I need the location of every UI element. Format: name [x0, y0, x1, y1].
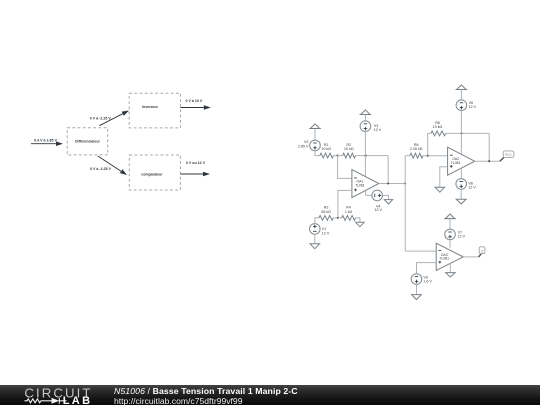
node flag PLC — [503, 151, 514, 158]
wire R1 to node — [333, 155, 337, 157]
voltage source V8 12V — [456, 179, 476, 190]
junction output/feedback — [387, 182, 389, 184]
arrow comparateur output 0V-12V — [180, 161, 210, 176]
ground at V8 — [456, 199, 466, 204]
svg-text:10 kΩ: 10 kΩ — [433, 125, 443, 129]
junction R8 feedback tap — [427, 155, 429, 157]
voltage source V6 12V — [456, 90, 477, 111]
wire feedback down to output — [387, 156, 389, 184]
arrow Differenciateur to comparateur — [90, 156, 127, 175]
junction feedback/output — [488, 160, 490, 162]
wire R6 to OA2 inverting input — [423, 155, 448, 157]
svg-text:Inverseur: Inverseur — [142, 105, 158, 109]
wire V4 to ground — [383, 195, 389, 199]
svg-text:12 V: 12 V — [468, 185, 476, 189]
wire OA1 output — [379, 183, 405, 185]
wire V1 to R3 — [315, 218, 319, 224]
arrow Inverseur output 0V-10V — [181, 99, 211, 110]
power flag above V2 — [309, 124, 321, 129]
wire R8 left leg — [428, 133, 431, 155]
voltage source V2 2.85V — [298, 129, 320, 151]
wire OA3 negative supply to ground — [449, 264, 451, 273]
svg-text:0 V à -2.25 V: 0 V à -2.25 V — [90, 116, 112, 120]
resistor R6 2.26k — [410, 143, 423, 158]
junction output to next stages — [404, 182, 406, 184]
junction V6 supply crossing — [460, 132, 462, 134]
svg-text:12 V: 12 V — [458, 234, 466, 238]
ground at V1 — [310, 244, 320, 249]
op-amp OA1 TL081 — [352, 170, 379, 198]
svg-text:12 V: 12 V — [322, 231, 330, 235]
wire node to R4 — [338, 217, 342, 219]
wire OA1 negative supply to V4 — [366, 191, 372, 196]
block Inverseur — [129, 93, 180, 128]
wire R8 right leg to output — [446, 133, 490, 161]
svg-text:0 V à -2.25 V: 0 V à -2.25 V — [90, 167, 112, 171]
svg-text:V2: V2 — [304, 140, 308, 144]
svg-text:d: d — [481, 249, 483, 253]
wire to flag d — [479, 254, 482, 257]
resistor R2 10k feedback — [343, 143, 356, 158]
wire V8 to ground — [460, 189, 462, 199]
svg-text:10 kΩ: 10 kΩ — [321, 147, 331, 151]
svg-text:12 V: 12 V — [374, 208, 382, 212]
svg-text:comparateur: comparateur — [141, 173, 163, 177]
node input signal arrow 0.4V-2.85V — [31, 138, 63, 146]
wire bus to R6 — [405, 155, 410, 157]
svg-text:0 V à 10 V: 0 V à 10 V — [186, 99, 203, 103]
svg-text:Différenciateur: Différenciateur — [75, 140, 100, 144]
wire bus to OA3 inverting input — [405, 250, 436, 252]
svg-text:12 V: 12 V — [469, 105, 477, 109]
svg-text:TL081: TL081 — [451, 161, 461, 165]
resistor R4 1k — [342, 206, 356, 221]
wire OA3 non-inverting to V9 — [417, 263, 437, 274]
block Differenciateur — [67, 128, 108, 155]
wire stage1 output bus vertical — [404, 156, 406, 251]
node junction R1/R2/inverting input — [337, 155, 339, 157]
CircuitLab logo — [0, 385, 110, 405]
svg-text:LAB: LAB — [63, 394, 93, 405]
power flag above V3 — [360, 110, 372, 115]
wire node to R2 — [338, 155, 343, 157]
ground at V4 — [384, 200, 392, 204]
wire OA3 output — [463, 256, 479, 258]
wire node down to OA1 inverting input — [338, 156, 352, 179]
wire OA2 output — [475, 160, 500, 162]
junction R3/R4/non-inverting — [337, 217, 339, 219]
svg-text:PLC: PLC — [505, 153, 512, 157]
wire OA1 non-inverting input — [338, 190, 352, 218]
svg-text:12 V: 12 V — [374, 128, 382, 132]
arrow Differenciateur to Inverseur — [90, 111, 129, 126]
wire V7 to OA3 positive supply — [449, 240, 451, 248]
ground at OA2 non-inverting input — [435, 187, 444, 192]
svg-text:2.85 V: 2.85 V — [298, 145, 309, 149]
wire OA2 non-inverting to ground — [440, 167, 448, 188]
junction V3 supply crossing — [365, 155, 367, 157]
power flag above V6 — [456, 85, 468, 90]
wire V2 to R1 — [315, 151, 320, 156]
svg-text:1 kΩ: 1 kΩ — [345, 210, 353, 214]
wire V9 to ground — [416, 284, 418, 294]
svg-text:TL081: TL081 — [439, 257, 449, 261]
resistor R8 10k feedback — [431, 121, 446, 136]
ground at R4 — [356, 222, 364, 226]
svg-text:0.4 V à 2.85 V: 0.4 V à 2.85 V — [34, 138, 57, 142]
voltage source V9 1.6V — [411, 274, 432, 285]
voltage source V7 12V — [445, 219, 466, 240]
footer bar — [0, 385, 540, 405]
svg-text:2.26 kΩ: 2.26 kΩ — [410, 147, 423, 151]
resistor R1 10k — [320, 143, 333, 158]
ground at OA3 negative supply — [446, 273, 456, 277]
resistor R3 56k — [319, 206, 333, 221]
wire V6 to OA2 positive supply — [460, 111, 462, 155]
svg-text:56 kΩ: 56 kΩ — [321, 210, 331, 214]
svg-text:10 kΩ: 10 kΩ — [344, 147, 354, 151]
wire to PLC flag — [500, 157, 504, 161]
op-amp OA3 TL081 — [436, 243, 463, 270]
svg-text:0 V ou 12 V: 0 V ou 12 V — [186, 161, 206, 165]
voltage source V4 12V — [372, 190, 383, 212]
power flag above V7 — [444, 214, 456, 219]
wire R3 to node — [333, 217, 338, 219]
block comparateur — [129, 155, 180, 190]
ground at V9 — [412, 295, 422, 300]
wire V3 to OA1 positive supply — [364, 132, 366, 177]
wire OA2 negative supply to V8 — [460, 168, 462, 178]
wire V1 to ground — [314, 234, 316, 244]
op-amp OA2 TL081 — [448, 147, 475, 175]
svg-text:1.6 V: 1.6 V — [423, 279, 432, 283]
wire R4 to ground — [356, 218, 360, 222]
svg-text:TL081: TL081 — [355, 183, 365, 187]
node flag d — [479, 247, 485, 254]
voltage source V1 12V — [310, 224, 330, 236]
wire R2 to feedback corner — [356, 155, 389, 157]
voltage source V3 12V — [360, 115, 382, 133]
